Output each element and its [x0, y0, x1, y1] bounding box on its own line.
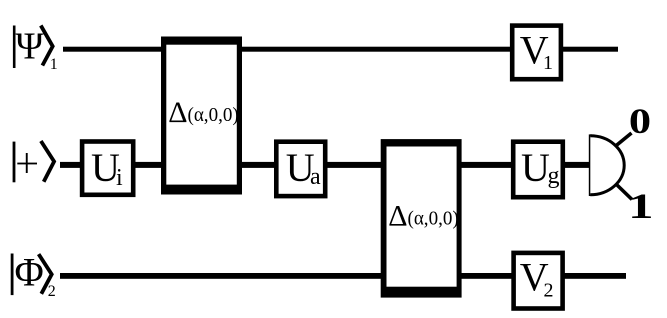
- svg-text:a: a: [310, 164, 321, 190]
- label Delta(a,0,0) of D1: [168, 96, 239, 129]
- svg-text:2: 2: [544, 280, 554, 302]
- wire middle ancilla: [60, 162, 589, 168]
- detector (measurement D shape): [590, 134, 624, 196]
- svg-text:1: 1: [543, 52, 553, 74]
- ket |+> input wire 2: [13, 141, 55, 182]
- gate V_1 box: [512, 26, 561, 80]
- svg-text:Ψ: Ψ: [16, 26, 44, 68]
- gate U_i box: [82, 142, 133, 195]
- detector output line 1: [617, 185, 633, 200]
- gate D2 box (Delta alpha,0,0 spanning wires 2-3): [381, 139, 462, 298]
- label output 0: [629, 101, 651, 141]
- detector output line 0: [615, 133, 632, 147]
- wire bottom qubit 2: [60, 273, 626, 279]
- label output 1: [628, 186, 653, 226]
- ket |Psi>_1 input wire 1: [13, 26, 58, 73]
- label Delta(a,0,0) of D2: [388, 200, 459, 233]
- svg-text:2: 2: [48, 283, 56, 300]
- wire top qubit 1: [63, 47, 618, 52]
- svg-text:Δ: Δ: [168, 96, 187, 129]
- gate D1 box (Delta alpha,0,0 spanning wires 1-2): [161, 37, 242, 195]
- svg-text:g: g: [548, 163, 560, 189]
- ket |Phi>_2 input wire 3: [11, 250, 56, 300]
- svg-text:U: U: [521, 145, 550, 190]
- svg-text:Δ: Δ: [388, 200, 407, 233]
- gate U_g box: [513, 142, 563, 198]
- svg-text:(α,0,0): (α,0,0): [188, 104, 239, 126]
- svg-text:0: 0: [629, 101, 651, 141]
- svg-text:(α,0,0): (α,0,0): [408, 208, 459, 230]
- svg-text:i: i: [116, 165, 123, 191]
- gate V_2 box: [514, 253, 563, 309]
- svg-text:1: 1: [50, 56, 58, 73]
- svg-text:1: 1: [628, 186, 653, 226]
- gate U_a box: [276, 142, 325, 196]
